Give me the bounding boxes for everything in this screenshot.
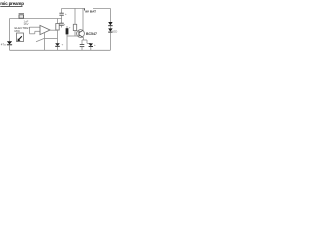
wire: op-amp output xyxy=(50,29,58,31)
svg-text:+: + xyxy=(94,43,96,47)
wire: left vertical xyxy=(9,19,11,42)
capacitor C6 (emitter bypass) xyxy=(80,40,85,50)
wire: diagonal feedback xyxy=(36,38,45,42)
wire: emitter node xyxy=(82,38,87,40)
trimmer VR1 xyxy=(66,26,69,50)
svg-text:+: + xyxy=(65,12,67,16)
svg-text:47u: 47u xyxy=(1,43,6,47)
capacitor C4 (lower) xyxy=(59,19,63,28)
battery B1 on rail xyxy=(85,8,111,13)
transistor Q1 xyxy=(77,30,85,38)
wire: input horizontal xyxy=(10,18,62,20)
wire: op-amp input staircase xyxy=(30,27,41,34)
wire: op-amp ground pin xyxy=(43,33,45,50)
wire: feedback horizontal xyxy=(44,38,57,40)
wire: collector to rail xyxy=(82,8,84,30)
microphone MIC1 xyxy=(17,33,24,42)
capacitor C2 (electrolytic, left branch) xyxy=(7,41,12,50)
title underline xyxy=(0,5,22,7)
wire: top rail left corner xyxy=(62,7,85,9)
svg-text:9V BAT: 9V BAT xyxy=(85,10,96,14)
svg-text:+: + xyxy=(64,23,66,27)
svg-text:+: + xyxy=(62,43,64,47)
resistor R2 (bias from rail) xyxy=(73,8,76,36)
diode D1 xyxy=(108,8,112,25)
capacitor C1 on input wire xyxy=(19,14,24,19)
resistor R1 (volume) xyxy=(56,19,59,44)
op-amp U1 xyxy=(40,25,50,34)
wire: base wire xyxy=(67,35,77,37)
svg-text:mic preamp: mic preamp xyxy=(0,1,24,6)
svg-text:+: + xyxy=(69,26,71,30)
diode D2 xyxy=(108,26,112,50)
svg-text:LED: LED xyxy=(112,30,117,34)
capacitor C3 (rail decoupling upper) xyxy=(59,8,63,18)
capacitor C5 (electrolytic to ground) xyxy=(55,43,60,50)
wire: bottom ground rail xyxy=(10,49,111,51)
capacitor C7 (electrolytic, emitter) xyxy=(87,40,93,50)
svg-text:BC547: BC547 xyxy=(86,32,97,36)
